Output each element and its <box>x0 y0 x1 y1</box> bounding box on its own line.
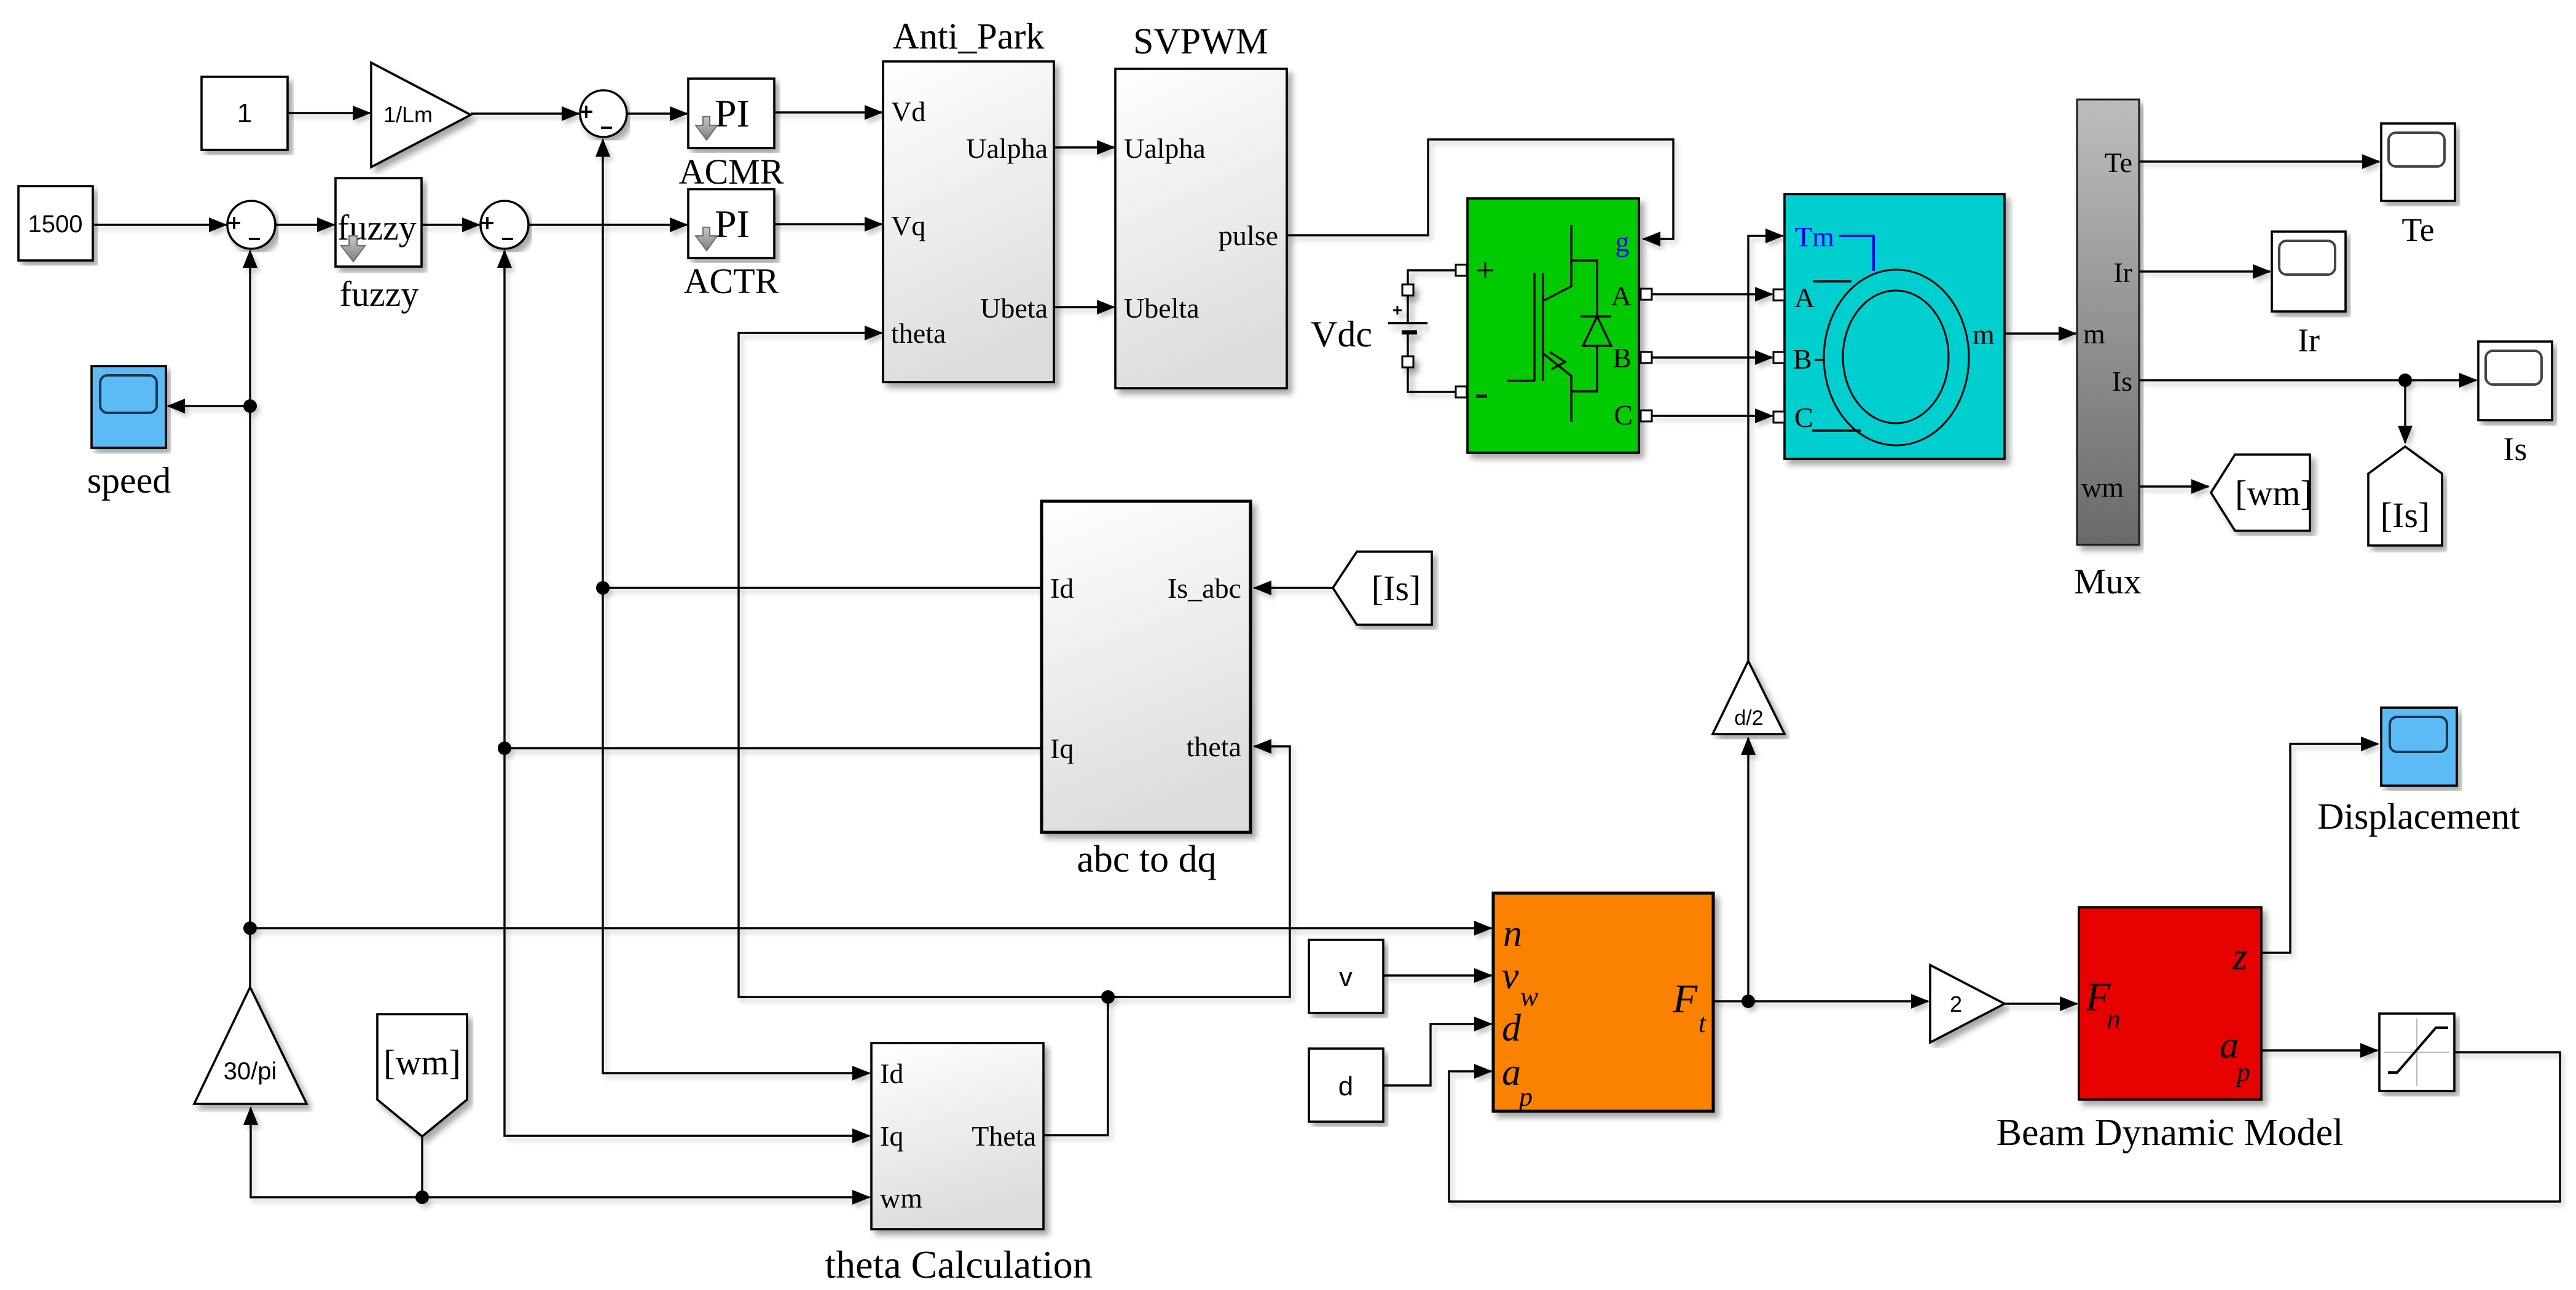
sum S1 <box>580 90 627 137</box>
wire: sum S2 to fuzzy <box>275 224 334 225</box>
svg-text:theta: theta <box>1187 731 1241 762</box>
sum S3 <box>481 201 528 249</box>
constant d <box>1309 1049 1383 1122</box>
svg-text:[Is]: [Is] <box>2381 495 2430 535</box>
wire: PI ACTR to Anti_Park Vq <box>774 223 882 225</box>
wire: sum S3 to PI ACTR <box>528 224 687 225</box>
junction: theta net node <box>1101 990 1115 1004</box>
wire: beam model ap to saturation <box>2261 1049 2378 1051</box>
svg-text:A: A <box>1611 280 1632 311</box>
svg-text:n: n <box>1503 913 1522 955</box>
wire: constant 1 to gain 1/Lm <box>288 112 370 114</box>
wire: orange Ft output to gain 2 <box>1713 1000 1928 1002</box>
inverter IGBT icon <box>1507 225 1611 422</box>
motor rotor inner ring <box>1843 291 1949 423</box>
gain 30/pi <box>194 987 307 1104</box>
svg-text:[wm]: [wm] <box>2235 473 2312 513</box>
svg-text:Mux: Mux <box>2074 561 2142 601</box>
wire: Is node down to goto [Is] <box>2404 380 2406 443</box>
wire: saturation feedback to orange ap <box>1449 1052 2560 1202</box>
svg-text:B: B <box>1793 343 1812 375</box>
svg-text:Ualpha: Ualpha <box>966 133 1048 164</box>
subsystem theta Calculation <box>871 1043 1043 1229</box>
scope Te <box>2381 123 2455 201</box>
svg-text:Beam Dynamic Model: Beam Dynamic Model <box>1997 1112 2344 1154</box>
motor block (cyan) <box>1785 194 2005 459</box>
wire: beam model z to scope Displacement <box>2261 744 2378 953</box>
svg-text:Ubelta: Ubelta <box>1124 292 1200 324</box>
svg-text:2: 2 <box>1950 991 1962 1017</box>
svg-text:Theta: Theta <box>972 1120 1036 1152</box>
sum S2 <box>227 201 275 249</box>
svg-text:PI: PI <box>715 92 750 135</box>
lead A <box>1813 280 1851 282</box>
svg-text:1500: 1500 <box>28 211 83 238</box>
svg-text:Is: Is <box>2503 431 2527 467</box>
svg-text:speed: speed <box>87 460 171 501</box>
wire: Anti_Park Ubeta to SVPWM Ubelta <box>1054 306 1114 308</box>
port squares inverter <box>1456 265 1467 276</box>
wire: Mux Te to scope Te <box>2139 160 2379 162</box>
junction: Iq node <box>498 741 511 755</box>
svg-text:Displacement: Displacement <box>2317 796 2520 837</box>
constant v <box>1309 940 1383 1013</box>
pin plus (inverter) <box>1477 262 1493 278</box>
svg-text:Is: Is <box>2112 365 2132 397</box>
svg-text:a: a <box>1502 1052 1521 1093</box>
svg-text:1: 1 <box>237 98 252 128</box>
wire Tm lead (blue) <box>1839 236 1874 271</box>
svg-text:w: w <box>1520 982 1539 1012</box>
wire: constant 1500 to sum S2 <box>93 224 226 225</box>
constant block 1 <box>202 77 288 150</box>
junction: Is wire node <box>2398 373 2412 387</box>
gain 2 <box>1930 965 2005 1042</box>
beam dynamic model block (red) <box>2079 907 2261 1100</box>
wire: theta net to abc to dq theta <box>1108 746 1290 997</box>
svg-text:Te: Te <box>2105 147 2132 178</box>
svg-text:z: z <box>2232 936 2247 978</box>
mask arrow icon ACMR <box>696 117 717 140</box>
svg-text:d: d <box>1338 1071 1353 1101</box>
svg-text:[wm]: [wm] <box>383 1042 461 1082</box>
svg-text:[Is]: [Is] <box>1372 568 1421 608</box>
svg-text:theta Calculation: theta Calculation <box>825 1243 1092 1286</box>
wire: inverter A to motor A <box>1651 293 1772 295</box>
svg-text:B: B <box>1612 342 1632 373</box>
junction: Ft node <box>1742 995 1755 1008</box>
wire: Mux Ir to scope Ir <box>2139 270 2270 272</box>
wire: inverter B to motor B <box>1651 356 1772 358</box>
scope speed <box>92 366 166 448</box>
svg-text:d/2: d/2 <box>1734 706 1763 730</box>
svg-text:n: n <box>2107 1003 2121 1034</box>
svg-text:C: C <box>1614 399 1633 431</box>
PI controller ACMR <box>688 79 774 148</box>
svg-text:Iq: Iq <box>1050 733 1074 764</box>
junction: Id node <box>596 581 610 595</box>
traction force block (orange) <box>1493 893 1713 1111</box>
wire: Anti_Park Ualpha to SVPWM Ualpha <box>1054 146 1114 148</box>
mask arrow icon ACTR <box>696 227 717 251</box>
junction: speed tap node <box>243 399 257 413</box>
svg-text:Tm: Tm <box>1795 221 1834 252</box>
svg-text:Ualpha: Ualpha <box>1124 133 1206 164</box>
svg-text:Id: Id <box>1050 573 1074 604</box>
svg-text:g: g <box>1616 226 1630 257</box>
Mux block <box>2077 100 2139 545</box>
svg-text:SVPWM: SVPWM <box>1133 21 1268 61</box>
lead C <box>1812 429 1861 431</box>
gain d/2 <box>1713 661 1785 734</box>
wire: from [wm] tag down and to theta Calculation wm <box>422 1136 870 1197</box>
svg-text:m: m <box>2083 318 2105 350</box>
wire: from tag [Is] to abc to dq Is_abc <box>1254 587 1333 588</box>
gain 1/Lm <box>371 63 471 167</box>
svg-text:fuzzy: fuzzy <box>340 274 419 314</box>
junction: n branch node <box>243 921 257 935</box>
wire: gain 1/Lm to sum S1 <box>471 112 579 114</box>
svg-text:F: F <box>1672 977 1698 1022</box>
svg-text:v: v <box>1502 955 1519 997</box>
wire: speed tap to scope speed <box>168 405 250 407</box>
svg-text:abc to dq: abc to dq <box>1077 838 1216 880</box>
fuzzy controller block <box>336 178 422 267</box>
svg-text:ACMR: ACMR <box>679 152 784 192</box>
svg-text:30/pi: 30/pi <box>224 1058 277 1085</box>
wire: Mux wm to goto [wm] <box>2139 485 2209 487</box>
svg-text:t: t <box>1698 1008 1707 1038</box>
wire: gain 2 to beam model Fn <box>2005 1003 2077 1004</box>
svg-text:PI: PI <box>715 202 750 246</box>
from tag [wm] <box>377 1014 467 1136</box>
svg-text:Ir: Ir <box>2298 322 2320 359</box>
port squares motor <box>1773 289 1785 300</box>
lead B <box>1815 359 1824 361</box>
scope Ir <box>2272 232 2346 311</box>
svg-text:Te: Te <box>2401 211 2434 248</box>
subsystem abc to dq <box>1042 501 1251 832</box>
svg-text:Is_abc: Is_abc <box>1168 573 1241 604</box>
svg-text:Id: Id <box>880 1058 903 1089</box>
svg-text:p: p <box>1517 1082 1533 1112</box>
svg-text:C: C <box>1794 402 1813 433</box>
svg-text:Ubeta: Ubeta <box>980 292 1048 324</box>
wire: gain d/2 to motor Tm <box>1748 236 1783 661</box>
scope Displacement <box>2381 708 2457 786</box>
saturation block <box>2379 1014 2454 1091</box>
constant block 1500 <box>18 186 93 260</box>
svg-text:Vd: Vd <box>891 96 925 127</box>
wire: theta Calculation Theta output up to theta net <box>1043 997 1108 1135</box>
wire: inverter C to motor C <box>1651 415 1772 416</box>
svg-text:theta: theta <box>891 318 946 349</box>
wire: Vdc battery plus to inverter plus <box>1408 270 1456 322</box>
subsystem Anti_Park <box>883 61 1054 382</box>
svg-text:p: p <box>2235 1057 2250 1087</box>
svg-text:wm: wm <box>880 1182 922 1214</box>
svg-text:m: m <box>1973 319 1995 350</box>
inverter block (green) <box>1467 198 1639 453</box>
wire: fuzzy to sum S3 <box>422 224 479 225</box>
svg-text:Vdc: Vdc <box>1311 314 1372 354</box>
battery Vdc <box>1388 270 1427 392</box>
from tag [Is] <box>1333 552 1432 625</box>
svg-text:Vq: Vq <box>891 210 925 241</box>
wire: speed n line to orange n <box>250 927 1491 929</box>
wire: Vdc battery minus to inverter minus <box>1408 333 1456 392</box>
wire: Mux Is to scope Is <box>2139 379 2476 381</box>
PI controller ACTR <box>688 189 774 258</box>
svg-text:pulse: pulse <box>1219 220 1278 251</box>
svg-text:A: A <box>1794 282 1815 313</box>
svg-text:Ir: Ir <box>2113 257 2132 288</box>
wire: SVPWM pulse to inverter g <box>1287 139 1673 239</box>
wire: constant v to orange vw <box>1383 974 1491 976</box>
wire: PI ACMR to Anti_Park Vd <box>774 111 882 113</box>
goto tag [Is] <box>2368 447 2442 545</box>
mask arrow icon fuzzy <box>341 236 365 262</box>
wire: sum S1 to PI ACMR <box>627 112 687 114</box>
svg-text:v: v <box>1339 962 1353 992</box>
wire: abc to dq Iq output to sum S3 and theta Calculation Iq <box>505 747 1042 749</box>
wire: wm node to gain 30/pi input <box>251 1108 422 1197</box>
goto tag [wm] <box>2211 455 2312 531</box>
wire: motor m to Mux m <box>2005 332 2076 334</box>
pin minus (inverter) <box>1476 395 1487 398</box>
scope Is <box>2478 342 2552 420</box>
wire: constant d to orange d <box>1383 1024 1491 1085</box>
svg-text:Iq: Iq <box>880 1120 903 1152</box>
wire: theta net to Anti_Park theta <box>739 333 1108 997</box>
svg-text:1/Lm: 1/Lm <box>383 102 433 127</box>
wire: gain 30/pi output up to sum S2 <box>249 251 251 987</box>
svg-text:ACTR: ACTR <box>684 261 779 301</box>
svg-text:a: a <box>2220 1025 2239 1066</box>
wire: Ft node up to gain d/2 <box>1747 738 1749 1001</box>
junction: wm node <box>415 1190 429 1204</box>
svg-text:d: d <box>1502 1007 1522 1049</box>
wire: abc to dq Id output to sum S1 and theta Calculation Id <box>603 587 1042 588</box>
svg-text:wm: wm <box>2081 472 2124 503</box>
svg-text:Anti_Park: Anti_Park <box>893 16 1045 57</box>
motor stator outer ring <box>1824 270 1969 445</box>
subsystem SVPWM <box>1115 69 1287 388</box>
